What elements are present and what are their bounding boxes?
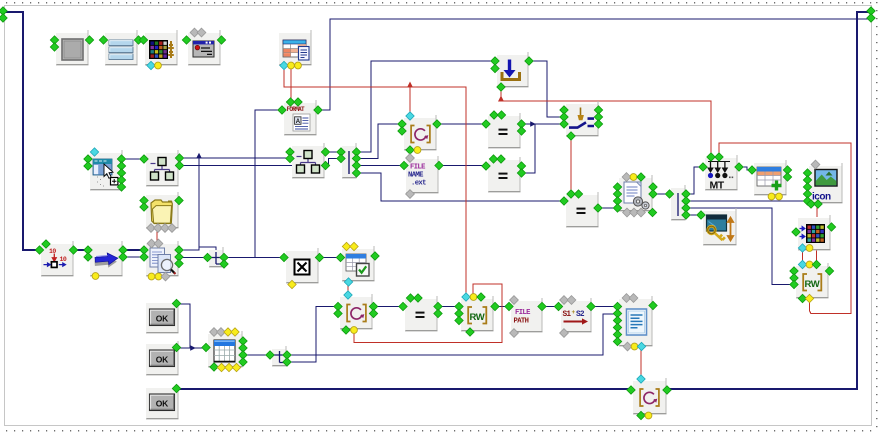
svg-text:NAME: NAME xyxy=(408,172,424,180)
svg-text:icon: icon xyxy=(812,192,831,203)
svg-text:RW: RW xyxy=(470,312,485,323)
svg-text:S1: S1 xyxy=(563,311,572,319)
svg-text:PATH: PATH xyxy=(514,318,529,326)
svg-text:A: A xyxy=(296,119,301,125)
svg-text:10: 10 xyxy=(60,256,67,263)
svg-text:.ext: .ext xyxy=(411,180,426,188)
svg-text:S2: S2 xyxy=(576,311,585,319)
svg-text:+: + xyxy=(572,309,576,316)
svg-text:MT: MT xyxy=(710,180,725,192)
svg-text:OK: OK xyxy=(156,355,169,365)
svg-text:FILE: FILE xyxy=(515,309,531,317)
svg-text:OK: OK xyxy=(156,399,169,409)
svg-text:OK: OK xyxy=(156,314,169,324)
svg-text:FILE: FILE xyxy=(410,164,426,172)
svg-text:FORMAT: FORMAT xyxy=(287,106,306,113)
svg-text:10: 10 xyxy=(49,248,56,255)
svg-text:RW: RW xyxy=(805,279,820,290)
